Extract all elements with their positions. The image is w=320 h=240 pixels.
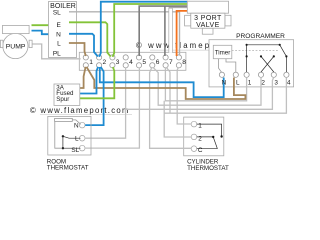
programmer terminals N L 1 2 3 4: [219, 72, 289, 77]
wire boiler SL grey to terminal 8: [69, 12, 180, 56]
svg-text:L: L: [57, 40, 61, 47]
svg-text:1: 1: [248, 79, 252, 86]
svg-text:PL: PL: [53, 51, 61, 58]
wire programmer 4 grey to cylinder stat net: [164, 77, 286, 113]
wire programmer 3 grey to room stat L net: [126, 77, 274, 109]
cyl stat contact 1 wire: [197, 124, 222, 136]
svg-text:N: N: [56, 32, 61, 39]
svg-text:Timer: Timer: [215, 49, 231, 56]
cyl stat terminal labels: [198, 123, 203, 155]
timer box: [213, 45, 232, 58]
svg-text:SL: SL: [53, 10, 61, 17]
svg-text:7: 7: [169, 59, 173, 66]
wire valve blue to terminal 2: [99, 2, 187, 57]
wire junction t6 grey to cylinder stat C: [150, 67, 192, 148]
wire pump earth green: [32, 24, 64, 26]
wire pump neutral blue: [32, 31, 64, 35]
cyl stat contact 2 wire: [197, 136, 213, 138]
wire hA to cylinder stat 2: [164, 101, 191, 137]
svg-text:2: 2: [261, 79, 265, 86]
svg-text:4: 4: [129, 59, 133, 66]
svg-text:THERMOSTAT: THERMOSTAT: [47, 165, 89, 170]
wire pump live grey: [33, 44, 81, 59]
programmer terminal labels: [222, 79, 291, 86]
svg-text:3 PORT: 3 PORT: [194, 15, 222, 22]
svg-text:E: E: [56, 22, 61, 29]
wire programmer 1 grey to junction t7: [165, 67, 246, 101]
wire junction t2 blue to room stat N: [85, 67, 103, 125]
cyl stat switch lever: [213, 137, 217, 149]
boiler terminals SL E N L PL: [64, 10, 69, 56]
wire junction t1 brown to fused spur: [79, 67, 86, 88]
svg-text:5: 5: [142, 59, 146, 66]
svg-text:L: L: [236, 79, 240, 86]
svg-text:8: 8: [182, 59, 186, 66]
watermark middle: [40, 113, 132, 115]
svg-text:N: N: [222, 79, 227, 86]
svg-text:2: 2: [103, 59, 107, 66]
wire valve white to terminal 7: [169, 6, 188, 8]
svg-text:© www.flameport.com: © www.flameport.com: [30, 106, 130, 115]
fused spur FS1: [54, 84, 80, 105]
wire valve grey to terminals 5 and 7: [139, 6, 187, 56]
programmer dashed link: [232, 49, 278, 51]
wire boiler N blue to terminal 2: [69, 34, 98, 57]
svg-text:6: 6: [156, 59, 160, 66]
room stat resistor to SL wire: [55, 121, 62, 148]
wire programmer 2 grey to junction t6: [153, 67, 261, 105]
svg-text:PROGRAMMER: PROGRAMMER: [236, 33, 285, 40]
pump P1 body: [0, 25, 32, 58]
wire junction t1 brown to programmer L: [87, 67, 246, 99]
room stat terminal labels: [71, 123, 79, 155]
room stat terminals N L SL: [79, 122, 85, 151]
cyl stat switch dots: [220, 135, 222, 137]
svg-text:3: 3: [116, 59, 120, 66]
junction box JB1: [79, 52, 186, 70]
room stat anticipator resistor: [55, 118, 73, 121]
programmer box U1: [209, 40, 294, 87]
wire junction t8 grey to cylinder stat 1: [177, 67, 191, 124]
wire junction t2 blue to programmer N: [100, 67, 224, 97]
svg-text:3: 3: [274, 79, 278, 86]
boiler terminal labels: [53, 10, 62, 58]
svg-text:C: C: [198, 147, 203, 154]
wire boiler L brown to terminal 1: [69, 43, 86, 56]
svg-text:1: 1: [198, 123, 202, 130]
svg-text:2: 2: [198, 135, 202, 142]
svg-text:L: L: [75, 136, 79, 143]
svg-text:THERMOSTAT: THERMOSTAT: [187, 165, 229, 170]
wire valve green to terminal 3: [113, 4, 188, 57]
wire junction t4 grey to room stat L: [85, 67, 125, 138]
timer to L wire: [226, 59, 236, 72]
wire junction t2 blue to fused spur: [80, 67, 99, 94]
svg-text:4: 4: [287, 79, 291, 86]
programmer switch bus: [247, 45, 287, 72]
wire junction t7 grey branch: [166, 67, 170, 113]
junction terminals 1-8: [83, 55, 181, 68]
boiler box: [49, 2, 77, 58]
svg-text:PUMP: PUMP: [6, 44, 26, 51]
cyl stat terminals 1 2 C: [191, 121, 197, 151]
wire junction t5 grey to room stat SL: [85, 67, 139, 148]
cyl stat common wire: [197, 148, 218, 150]
wire valve orange to terminal 8: [177, 11, 188, 56]
wire junction t3 green to fused spur: [80, 67, 115, 98]
room stat switch dots: [62, 135, 64, 137]
timer to N wire: [219, 59, 222, 72]
svg-text:Spur: Spur: [56, 96, 69, 103]
room thermostat box RT1: [48, 116, 91, 155]
valve V1 3 port valve body: [185, 1, 231, 34]
room stat resistor to N wire: [72, 120, 80, 124]
programmer switch dots: [246, 44, 288, 58]
svg-text:N: N: [74, 123, 79, 130]
svg-text:SL: SL: [71, 147, 79, 154]
cylinder thermostat box CT1: [184, 117, 224, 156]
junction terminal numbers: [89, 59, 186, 66]
wire boiler E green to terminal 3: [69, 22, 111, 56]
svg-text:1: 1: [89, 59, 93, 66]
watermark top: [150, 49, 252, 51]
room stat switch lever: [63, 136, 81, 148]
svg-text:VALVE: VALVE: [196, 22, 220, 29]
